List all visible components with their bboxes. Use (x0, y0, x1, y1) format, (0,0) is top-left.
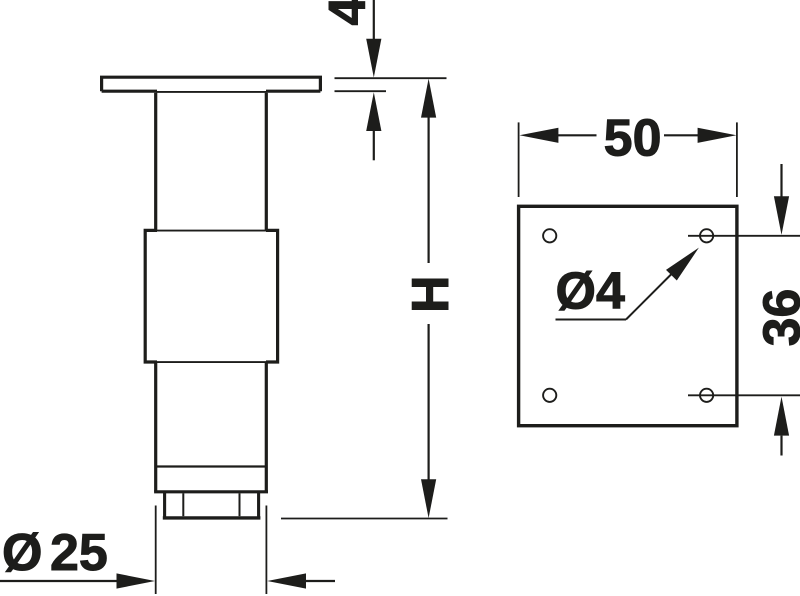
dim 50 left arrowhead (520, 128, 559, 143)
dim 25 left-pointing arrowhead (267, 573, 306, 588)
hole top-right (700, 229, 713, 242)
dim 25 right-pointing arrowhead (117, 573, 156, 588)
dim 50 right line (664, 134, 698, 136)
hole top-left (543, 229, 556, 242)
leader line underline (556, 319, 627, 321)
plate bottom edge thin segment where shaft passes (156, 91, 267, 93)
svg-text:50: 50 (604, 110, 662, 168)
dim 50 right extension line (736, 122, 738, 197)
adjustment sleeve right outline (266, 230, 278, 362)
svg-text:Ø4: Ø4 (556, 263, 625, 321)
dim 36 lower stem (780, 436, 782, 456)
lower shaft intermediate line (157, 465, 266, 467)
dim 36 top extension line (688, 235, 800, 237)
leader diagonal line (626, 258, 688, 320)
dim H lower stem (428, 324, 430, 480)
dim H upper stem (428, 117, 430, 263)
sleeve bottom thin edge (156, 361, 267, 363)
mounting plate square (top view) (519, 206, 737, 425)
lower shaft left edge (154, 362, 157, 492)
foot right edge (257, 492, 260, 518)
upper shaft tube right edge (265, 93, 268, 231)
dim 4 lower stem (373, 131, 375, 160)
dim 36 upper stem (780, 164, 782, 197)
svg-text:Ø: Ø (2, 524, 42, 582)
dim 50 right arrowhead (698, 128, 737, 143)
svg-text:H: H (402, 275, 460, 313)
svg-text:36: 36 (754, 289, 800, 347)
dim 4 upper stem (373, 0, 375, 40)
hole bottom-right (700, 389, 713, 402)
upper shaft tube left edge (154, 93, 157, 231)
adjustment sleeve left outline (145, 230, 157, 362)
dim 25 left line (0, 580, 117, 582)
dim 36 down arrowhead (774, 196, 789, 235)
dim H up arrowhead (421, 79, 436, 118)
extension line plate bottom surface (335, 90, 387, 92)
foot inner right line (239, 493, 241, 516)
shaft bottom edge (154, 490, 268, 493)
hole bottom-left (543, 389, 556, 402)
svg-text:4: 4 (319, 0, 377, 25)
dim 36 up arrowhead (774, 397, 789, 436)
foot inner left line (182, 493, 184, 516)
lower shaft right edge (265, 362, 268, 492)
dim 25 right line (306, 580, 335, 582)
dim 4 up arrowhead (366, 92, 381, 131)
dim H down arrowhead (421, 479, 436, 518)
dim 4 down arrowhead (366, 39, 381, 78)
sleeve top thin edge (156, 230, 267, 232)
top mounting plate (side view) (102, 77, 321, 91)
leader arrowhead (666, 248, 699, 281)
dim 25 right extension line (265, 506, 267, 595)
dim 25 left extension line (155, 506, 157, 595)
extension line plate top surface (335, 77, 447, 79)
extension line foot bottom plane (281, 518, 448, 520)
dim 50 left line (558, 134, 597, 136)
foot left edge (163, 492, 166, 518)
dim 36 bottom extension line (688, 394, 800, 396)
svg-text:25: 25 (50, 524, 108, 582)
foot bottom edge (163, 516, 261, 519)
dim 50 left extension line (518, 122, 520, 197)
